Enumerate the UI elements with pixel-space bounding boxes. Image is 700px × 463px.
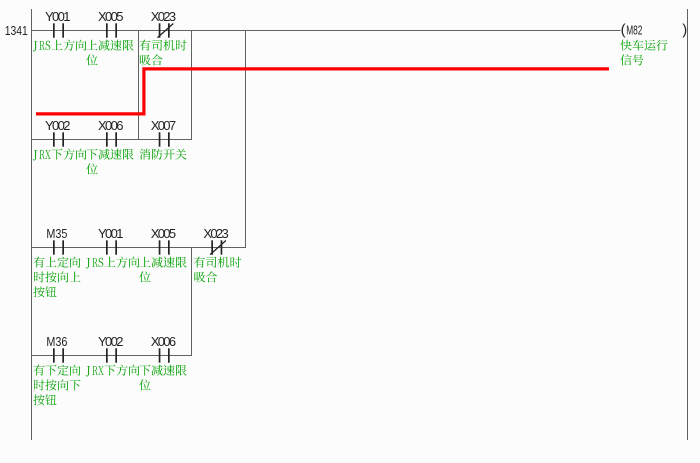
label X006 (rung2): [98, 118, 123, 133]
contact Y001 (rung3): [106, 240, 117, 254]
wire rung2: [31, 139, 192, 141]
contact X023 NC (rung3): [210, 240, 226, 254]
label M36 (rung4): [46, 334, 67, 349]
svg-text:M36: M36: [46, 334, 67, 349]
svg-text:Y001: Y001: [45, 9, 70, 24]
comment Y002 rung2: JRX下方向: [33, 149, 86, 161]
comment M35 rung3: 有上定向时按向上按钮: [33, 257, 80, 298]
label M82: [626, 22, 642, 37]
contact Y002 (rung2): [53, 132, 64, 146]
svg-text:X006: X006: [151, 334, 176, 349]
wire rung4: [31, 355, 192, 357]
label X023 (rung3): [203, 226, 228, 241]
comment Y001 rung3: JRS上方向: [86, 257, 140, 269]
coil M82: [621, 22, 688, 39]
contact X007 (rung2): [159, 132, 170, 146]
svg-text:M82: M82: [626, 22, 642, 37]
svg-text:1341: 1341: [5, 23, 28, 38]
label Y002 (rung4): [98, 334, 123, 349]
svg-text:X005: X005: [98, 9, 123, 24]
svg-text:): ): [682, 22, 687, 39]
right power rail: [687, 9, 689, 440]
wire junction v2 (rung1-rung2 right): [191, 31, 193, 140]
label Y001 (rung1): [45, 9, 70, 24]
red highlight trace wire: [36, 69, 609, 114]
contact M35 (rung3): [53, 240, 64, 254]
wire rung1: [31, 30, 621, 32]
contact Y001 (rung1): [53, 23, 64, 37]
contact X005 (rung1): [106, 23, 117, 37]
comment X006 rung4: 下减速限位: [139, 365, 186, 391]
label X005 (rung3): [151, 226, 176, 241]
comment X005 rung3: 上减速限位: [139, 257, 186, 283]
svg-text:X005: X005: [151, 226, 176, 241]
wire junction v1 (rung1-rung2 left): [138, 31, 140, 140]
svg-text:(: (: [621, 22, 626, 39]
svg-text:Y002: Y002: [45, 118, 70, 133]
contact X006 (rung4): [159, 348, 170, 362]
comment M82: 快车运行信号: [620, 40, 667, 66]
comment X023 rung1: 有司机时吸合: [140, 40, 187, 66]
label M35 (rung3): [46, 226, 67, 241]
label Y001 (rung3): [98, 226, 123, 241]
comment X005 rung1: 上减速限位: [86, 40, 133, 66]
contact X023 NC (rung1): [158, 23, 174, 37]
svg-text:X006: X006: [98, 118, 123, 133]
svg-text:Y002: Y002: [98, 334, 123, 349]
contact X005 (rung3): [159, 240, 170, 254]
label X005 (rung1): [98, 9, 123, 24]
label Y002 (rung2): [45, 118, 70, 133]
comment M36 rung4: 有下定向时按向下按钮: [33, 365, 80, 406]
step number 1341: [5, 23, 28, 38]
svg-text:Y001: Y001: [98, 226, 123, 241]
contact X006 (rung2): [106, 132, 117, 146]
wire junction v3 (rung1-rung3): [245, 31, 247, 248]
comment X006 rung2: 下减速限位: [86, 149, 133, 175]
contact Y002 (rung4): [106, 348, 117, 362]
label X023 (rung1): [151, 9, 176, 24]
left power rail: [31, 9, 33, 440]
label X007 (rung2): [151, 118, 176, 133]
wire rung3: [31, 247, 246, 249]
wire junction v4 (rung3-rung4): [191, 248, 193, 356]
label X006 (rung4): [151, 334, 176, 349]
comment Y001 rung1: JRS上方向: [33, 40, 86, 52]
comment X007 rung2: 消防开关: [140, 149, 187, 160]
svg-text:X023: X023: [151, 9, 176, 24]
comment X023 rung3: 有司机时吸合: [194, 257, 241, 283]
svg-text:X007: X007: [151, 118, 176, 133]
comment Y002 rung4: JRX下方向: [86, 365, 140, 377]
contact M36 (rung4): [53, 348, 64, 362]
svg-text:X023: X023: [203, 226, 228, 241]
svg-text:M35: M35: [46, 226, 67, 241]
